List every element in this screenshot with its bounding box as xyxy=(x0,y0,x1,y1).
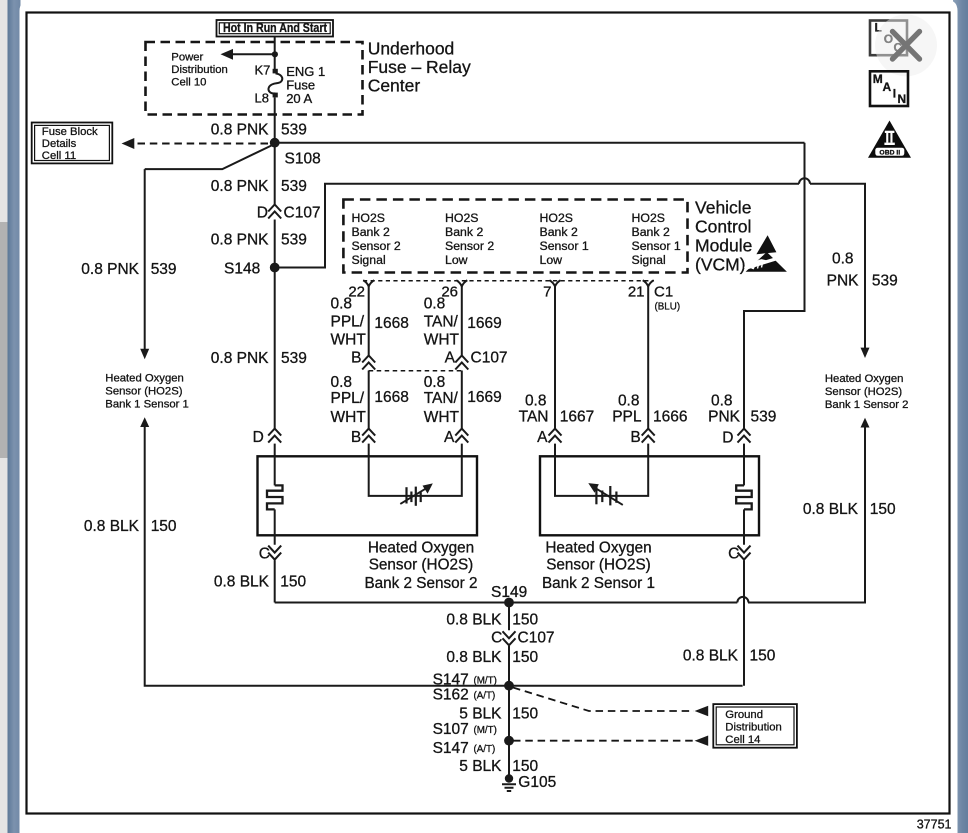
svg-text:150: 150 xyxy=(512,612,538,629)
dashed arrow S107 to Ground Distribution xyxy=(513,736,708,746)
svg-text:B: B xyxy=(351,429,361,446)
label Power Distribution Cell 10 xyxy=(171,52,228,89)
wire box1 pin C down xyxy=(274,535,276,602)
svg-text:0.8 BLK: 0.8 BLK xyxy=(446,612,502,629)
pin C chevron box1 xyxy=(259,545,281,562)
svg-text:WHT: WHT xyxy=(424,332,460,349)
svg-text:B: B xyxy=(351,350,361,367)
svg-text:0.8: 0.8 xyxy=(424,296,446,313)
svg-text:S107: S107 xyxy=(433,721,469,738)
svg-text:Underhood: Underhood xyxy=(368,38,455,58)
svg-text:Bank 2: Bank 2 xyxy=(352,225,390,239)
wire pin D into HO2S box xyxy=(743,444,745,457)
label Underhood Fuse-Relay Center xyxy=(368,38,471,95)
svg-text:Vehicle: Vehicle xyxy=(695,198,751,218)
svg-text:1666: 1666 xyxy=(653,408,687,425)
svg-text:Sensor 2: Sensor 2 xyxy=(352,239,401,253)
label 0.8 PNK 539 (right outer) xyxy=(827,250,898,289)
svg-text:C1: C1 xyxy=(654,284,673,301)
wire heater to box1 bottom xyxy=(274,509,276,535)
svg-text:539: 539 xyxy=(751,408,777,425)
wire pin D into box2 xyxy=(743,456,745,485)
svg-text:(A/T): (A/T) xyxy=(474,744,496,755)
wire S108 to right xyxy=(275,142,805,144)
wire S148 down to HO2S box1 pin D xyxy=(274,268,276,429)
svg-text:Distribution: Distribution xyxy=(171,64,228,76)
connector half C2 pin D chevron xyxy=(738,429,751,443)
label VCM col1 HO2S Bank 2 Sensor 2 Signal xyxy=(352,211,401,267)
icon LOC button xyxy=(870,21,907,56)
svg-text:7: 7 xyxy=(543,284,551,301)
node S148 xyxy=(224,261,280,278)
wire pin 7 to HO2S box xyxy=(554,286,556,456)
svg-text:Heated Oxygen: Heated Oxygen xyxy=(105,373,184,385)
wire S149 row xyxy=(275,602,865,604)
internal sensor wire box2 xyxy=(555,456,648,496)
label Heated Oxygen Sensor (HO2S) Bank 1 Sensor 1 xyxy=(105,373,189,411)
wire right outer down to S149 row xyxy=(748,426,865,603)
wire left branch lower to S147 row xyxy=(145,426,743,686)
svg-text:1668: 1668 xyxy=(374,389,408,406)
svg-text:5 BLK: 5 BLK xyxy=(459,705,502,722)
svg-text:S108: S108 xyxy=(285,151,321,168)
label VCM col2 HO2S Bank 2 Sensor 2 Low xyxy=(445,211,494,267)
svg-text:0.8 BLK: 0.8 BLK xyxy=(84,518,140,535)
svg-text:539: 539 xyxy=(281,121,307,138)
label 0.8 PNK 539 (left branch) xyxy=(81,261,176,278)
label 0.8 PPL 1666 xyxy=(612,392,687,425)
svg-text:0.8 PNK: 0.8 PNK xyxy=(211,350,269,367)
svg-text:0.8: 0.8 xyxy=(525,392,547,409)
label 0.8 TAN/WHT 1669 (upper) xyxy=(424,296,502,349)
svg-text:Bank 2 Sensor 1: Bank 2 Sensor 1 xyxy=(542,575,655,592)
svg-text:1669: 1669 xyxy=(467,315,501,332)
svg-text:Bank 2 Sensor 2: Bank 2 Sensor 2 xyxy=(364,575,477,592)
HO2S Bank 2 Sensor 1 box xyxy=(540,456,759,535)
svg-text:0.8: 0.8 xyxy=(331,296,353,313)
close button circle with X xyxy=(875,14,937,76)
svg-text:Power: Power xyxy=(171,52,203,64)
svg-text:Signal: Signal xyxy=(352,253,386,267)
internal sensor wire box1 xyxy=(369,456,462,496)
svg-text:Heated Oxygen: Heated Oxygen xyxy=(368,540,474,557)
label 0.8 PNK 539 (to pin D) xyxy=(708,392,776,425)
wire box1 pin D into box xyxy=(274,444,276,457)
connector C1 dashed pin row xyxy=(363,280,654,282)
scrollbar thumb xyxy=(0,222,8,458)
svg-text:Fuse – Relay: Fuse – Relay xyxy=(368,57,471,77)
ground G105 xyxy=(502,774,556,791)
label 0.8 BLK 150 (right outer) xyxy=(803,501,896,518)
label 0.8 PNK 539 (3rd) xyxy=(211,231,307,248)
label Heated Oxygen Sensor (HO2S) Bank 2 Sensor 2 xyxy=(364,540,477,592)
svg-text:S149: S149 xyxy=(491,584,527,601)
svg-text:S162: S162 xyxy=(433,687,469,704)
svg-text:150: 150 xyxy=(512,649,538,666)
svg-text:37751: 37751 xyxy=(917,817,952,831)
svg-text:B: B xyxy=(630,429,640,446)
svg-text:Sensor (HO2S): Sensor (HO2S) xyxy=(105,386,182,398)
svg-text:0.8: 0.8 xyxy=(424,374,446,391)
wire S107 down to ground xyxy=(508,741,510,776)
svg-text:0.8 PNK: 0.8 PNK xyxy=(81,261,139,278)
svg-text:HO2S: HO2S xyxy=(632,211,666,225)
node S108 xyxy=(270,138,321,168)
svg-text:20 A: 20 A xyxy=(286,91,312,106)
svg-text:Sensor (HO2S): Sensor (HO2S) xyxy=(546,556,651,573)
svg-text:Heated Oxygen: Heated Oxygen xyxy=(545,540,651,557)
svg-text:PNK: PNK xyxy=(708,408,741,425)
svg-text:G105: G105 xyxy=(518,774,556,791)
ESD warning symbol xyxy=(745,235,787,272)
svg-text:0.8 PNK: 0.8 PNK xyxy=(211,121,269,138)
label 5 BLK 150 xyxy=(459,705,538,722)
label 0.8 BLK 150 (left) xyxy=(84,518,177,535)
wire pin 22 to C107 xyxy=(368,286,370,355)
svg-text:I: I xyxy=(893,87,896,101)
label 0.8 PNK 539 (2nd) xyxy=(211,178,307,195)
label 0.8 BLK 150 (below C107) xyxy=(446,649,538,666)
svg-text:Sensor 1: Sensor 1 xyxy=(632,239,681,253)
pin B chevron at HO2S box 2 xyxy=(630,429,654,446)
svg-text:150: 150 xyxy=(280,573,306,590)
wire C107 B to HO2S box xyxy=(368,371,370,457)
label 0.8 PNK 539 (top) xyxy=(211,121,307,138)
svg-text:TAN: TAN xyxy=(519,408,549,425)
wire hop over x804 line xyxy=(799,178,810,184)
svg-text:0.8 BLK: 0.8 BLK xyxy=(214,573,270,590)
svg-text:150: 150 xyxy=(870,501,896,518)
svg-text:(A/T): (A/T) xyxy=(474,691,496,702)
label C1 (BLU) xyxy=(654,284,680,313)
node S147/S162 xyxy=(433,671,514,703)
pin A chevron at HO2S box 2 xyxy=(537,429,561,446)
svg-text:C: C xyxy=(491,629,502,646)
svg-text:Heated Oxygen: Heated Oxygen xyxy=(825,373,904,385)
svg-text:1667: 1667 xyxy=(560,408,594,425)
label 5 BLK 150 (lower) xyxy=(459,758,538,775)
heater element box1 xyxy=(267,485,283,509)
connector C107 pin C (down chevron) xyxy=(491,629,554,646)
wire heater to box2 bottom xyxy=(743,509,745,535)
svg-text:Ground: Ground xyxy=(725,709,763,721)
node fuse feed junction xyxy=(272,51,278,57)
svg-text:OBD II: OBD II xyxy=(879,149,900,156)
svg-text:21: 21 xyxy=(628,284,645,301)
dashed arrow to Fuse Block Details xyxy=(122,138,269,149)
svg-text:Control: Control xyxy=(695,217,751,237)
svg-text:539: 539 xyxy=(151,261,177,278)
svg-text:A: A xyxy=(444,429,455,446)
svg-text:Module: Module xyxy=(695,236,752,256)
pin D chevron at HO2S box1 xyxy=(253,429,282,446)
svg-text:PNK: PNK xyxy=(827,272,860,289)
svg-text:PPL/: PPL/ xyxy=(331,390,365,407)
node S149 xyxy=(491,584,527,607)
svg-text:A: A xyxy=(537,429,548,446)
svg-text:0.8: 0.8 xyxy=(331,374,353,391)
wire pin 26 to C107 xyxy=(461,286,463,355)
svg-text:Distribution: Distribution xyxy=(725,721,782,733)
Ground Distribution Cell 14 box xyxy=(713,704,797,748)
svg-text:0.8 BLK: 0.8 BLK xyxy=(803,501,859,518)
svg-text:1669: 1669 xyxy=(467,389,501,406)
label 0.8 BLK 150 (box2 C) xyxy=(683,647,776,664)
Vehicle Control Module dashed box xyxy=(343,200,687,273)
svg-text:PPL/: PPL/ xyxy=(331,314,365,331)
pin bracket 26 xyxy=(456,280,467,286)
sensor element box1 (variable arrow) xyxy=(400,483,433,505)
svg-text:0.8: 0.8 xyxy=(618,392,640,409)
svg-text:K7: K7 xyxy=(255,63,271,78)
wire box2 pin C down through hop to S147 row xyxy=(743,535,745,685)
svg-text:0.8: 0.8 xyxy=(711,392,733,409)
svg-text:HO2S: HO2S xyxy=(540,211,574,225)
svg-text:539: 539 xyxy=(872,272,898,289)
arrow down to HO2S Bank 1 Sensor 1 xyxy=(140,349,149,359)
svg-text:(BLU): (BLU) xyxy=(655,302,681,313)
svg-text:D: D xyxy=(257,205,268,222)
right blue frame strip xyxy=(953,0,968,833)
svg-text:S148: S148 xyxy=(224,261,260,278)
node S107/S147 xyxy=(433,721,514,757)
svg-text:TAN/: TAN/ xyxy=(424,390,459,407)
pin B chevron at HO2S box xyxy=(351,429,375,446)
dashed arrow S147 to Ground Distribution xyxy=(513,688,708,717)
svg-text:Sensor 1: Sensor 1 xyxy=(540,239,589,253)
svg-text:Fuse Block: Fuse Block xyxy=(42,126,98,138)
svg-text:C107: C107 xyxy=(471,350,508,367)
svg-text:L8: L8 xyxy=(255,91,269,106)
pin C chevron box2 xyxy=(728,545,750,562)
svg-text:Bank 1 Sensor 2: Bank 1 Sensor 2 xyxy=(825,399,909,411)
label 0.8 PPL/WHT 1668 (upper) xyxy=(331,296,409,349)
connector C107 pin A chevron xyxy=(445,350,508,370)
svg-text:HO2S: HO2S xyxy=(352,211,386,225)
pin bracket 7 xyxy=(550,280,561,286)
svg-text:WHT: WHT xyxy=(331,409,367,426)
label 0.8 PPL/WHT 1668 (lower) xyxy=(331,374,409,426)
svg-text:WHT: WHT xyxy=(331,332,367,349)
svg-text:Hot In Run And Start: Hot In Run And Start xyxy=(223,20,328,35)
svg-text:0.8 BLK: 0.8 BLK xyxy=(683,647,739,664)
svg-text:Bank 2: Bank 2 xyxy=(445,225,483,239)
svg-text:539: 539 xyxy=(281,178,307,195)
svg-text:Signal: Signal xyxy=(632,253,666,267)
label ENG 1 Fuse 20 A xyxy=(286,64,325,106)
svg-text:Bank 2: Bank 2 xyxy=(540,225,578,239)
svg-text:S147: S147 xyxy=(433,740,469,757)
svg-text:0.8 PNK: 0.8 PNK xyxy=(211,178,269,195)
svg-text:Low: Low xyxy=(540,253,563,267)
arrow from HO2S B1S2 down-wire xyxy=(861,418,870,428)
label 0.8 BLK 150 (box1 C) xyxy=(214,573,307,590)
svg-text:HO2S: HO2S xyxy=(445,211,479,225)
heater element box2 xyxy=(736,485,752,509)
connector C107 pin B chevron xyxy=(351,350,375,370)
wire S147 down xyxy=(508,686,510,741)
wire pin 21 to HO2S box xyxy=(647,286,649,456)
svg-text:Details: Details xyxy=(42,138,77,150)
label 0.8 TAN 1667 xyxy=(519,392,595,425)
pin A chevron at HO2S box xyxy=(444,429,468,446)
svg-text:(M/T): (M/T) xyxy=(474,725,497,736)
svg-text:1668: 1668 xyxy=(374,315,408,332)
svg-text:Sensor (HO2S): Sensor (HO2S) xyxy=(825,386,902,398)
svg-text:Bank 2: Bank 2 xyxy=(632,225,670,239)
scrollbar track left xyxy=(0,0,8,833)
pin bracket 22 xyxy=(363,280,374,286)
svg-text:Cell 10: Cell 10 xyxy=(171,77,206,89)
HO2S Bank 2 Sensor 2 box xyxy=(258,456,478,535)
svg-text:A: A xyxy=(445,350,456,367)
icon OBD II triangle xyxy=(868,121,911,158)
svg-text:Sensor (HO2S): Sensor (HO2S) xyxy=(369,556,474,573)
svg-text:0.8: 0.8 xyxy=(832,250,854,267)
label Heated Oxygen Sensor (HO2S) Bank 1 Sensor 2 xyxy=(825,373,909,411)
wire from Hot In Run box to fuse xyxy=(274,37,276,70)
svg-text:539: 539 xyxy=(281,231,307,248)
svg-text:WHT: WHT xyxy=(424,409,460,426)
label Vehicle Control Module (VCM) xyxy=(695,198,752,275)
label 0.8 TAN/WHT 1669 (lower) xyxy=(424,374,502,426)
label Heated Oxygen Sensor (HO2S) Bank 2 Sensor 1 xyxy=(542,540,655,592)
svg-text:D: D xyxy=(722,429,733,446)
sensor element box2 (variable arrow) xyxy=(588,483,623,505)
wire diagonal S108 to left branch xyxy=(145,145,273,169)
svg-text:539: 539 xyxy=(281,350,307,367)
svg-text:C107: C107 xyxy=(518,629,555,646)
svg-text:150: 150 xyxy=(512,705,538,722)
svg-text:Low: Low xyxy=(445,253,468,267)
wire main vertical S108 to S148 xyxy=(274,143,276,204)
svg-text:(M/T): (M/T) xyxy=(474,675,497,686)
arrow from HO2S B1S1 down-wire xyxy=(140,417,149,427)
svg-text:150: 150 xyxy=(750,647,776,664)
svg-text:Cell 11: Cell 11 xyxy=(42,150,76,162)
svg-text:0.8 PNK: 0.8 PNK xyxy=(211,231,269,248)
svg-text:C107: C107 xyxy=(284,205,321,222)
label VCM col3 HO2S Bank 2 Sensor 1 Low xyxy=(540,211,589,267)
arrow down to HO2S Bank 1 Sensor 2 xyxy=(861,348,870,358)
Hot In Run And Start box xyxy=(217,20,334,37)
connector C107 dashed span xyxy=(369,370,462,372)
svg-text:Cell 14: Cell 14 xyxy=(725,734,760,746)
svg-text:(VCM): (VCM) xyxy=(695,255,746,275)
wire down right x804 xyxy=(744,143,805,429)
wire S149 down to C107 xyxy=(508,603,510,686)
svg-text:D: D xyxy=(253,429,264,446)
wire S148 right then up and across with hop xyxy=(275,184,865,350)
svg-text:PPL: PPL xyxy=(612,408,642,425)
icon MAIN button xyxy=(870,71,908,106)
label 0.8 BLK 150 (below S149) xyxy=(446,612,538,629)
svg-text:M: M xyxy=(873,72,883,86)
svg-text:N: N xyxy=(898,92,907,106)
pin bracket 21 xyxy=(643,280,654,286)
svg-text:5 BLK: 5 BLK xyxy=(459,758,502,775)
svg-text:Sensor 2: Sensor 2 xyxy=(445,239,494,253)
wire pin D into box1 xyxy=(274,456,276,485)
svg-text:TAN/: TAN/ xyxy=(424,314,459,331)
svg-text:Center: Center xyxy=(368,76,421,96)
svg-text:Bank 1 Sensor 1: Bank 1 Sensor 1 xyxy=(105,399,189,411)
connector C107 pin D (main wire) xyxy=(257,205,321,222)
svg-text:150: 150 xyxy=(151,518,177,535)
svg-text:0.8 BLK: 0.8 BLK xyxy=(446,649,502,666)
fuse ENG 1 20A xyxy=(268,69,282,98)
wire arrow to Power Distribution xyxy=(221,49,275,60)
Underhood Fuse-Relay Center dashed box xyxy=(146,42,363,115)
label VCM col4 HO2S Bank 2 Sensor 1 Signal xyxy=(632,211,681,267)
wire hop S149 over box2 C wire xyxy=(737,597,748,603)
wire C107 A to HO2S box xyxy=(461,371,463,457)
label 0.8 PNK 539 (above box1 pin D) xyxy=(211,350,307,367)
wire left branch down to HO2S B1S1 xyxy=(144,169,146,350)
svg-text:A: A xyxy=(883,80,892,94)
svg-text:150: 150 xyxy=(512,758,538,775)
wire fuse to S108 xyxy=(274,97,276,142)
Fuse Block Details Cell 11 box xyxy=(32,123,113,164)
